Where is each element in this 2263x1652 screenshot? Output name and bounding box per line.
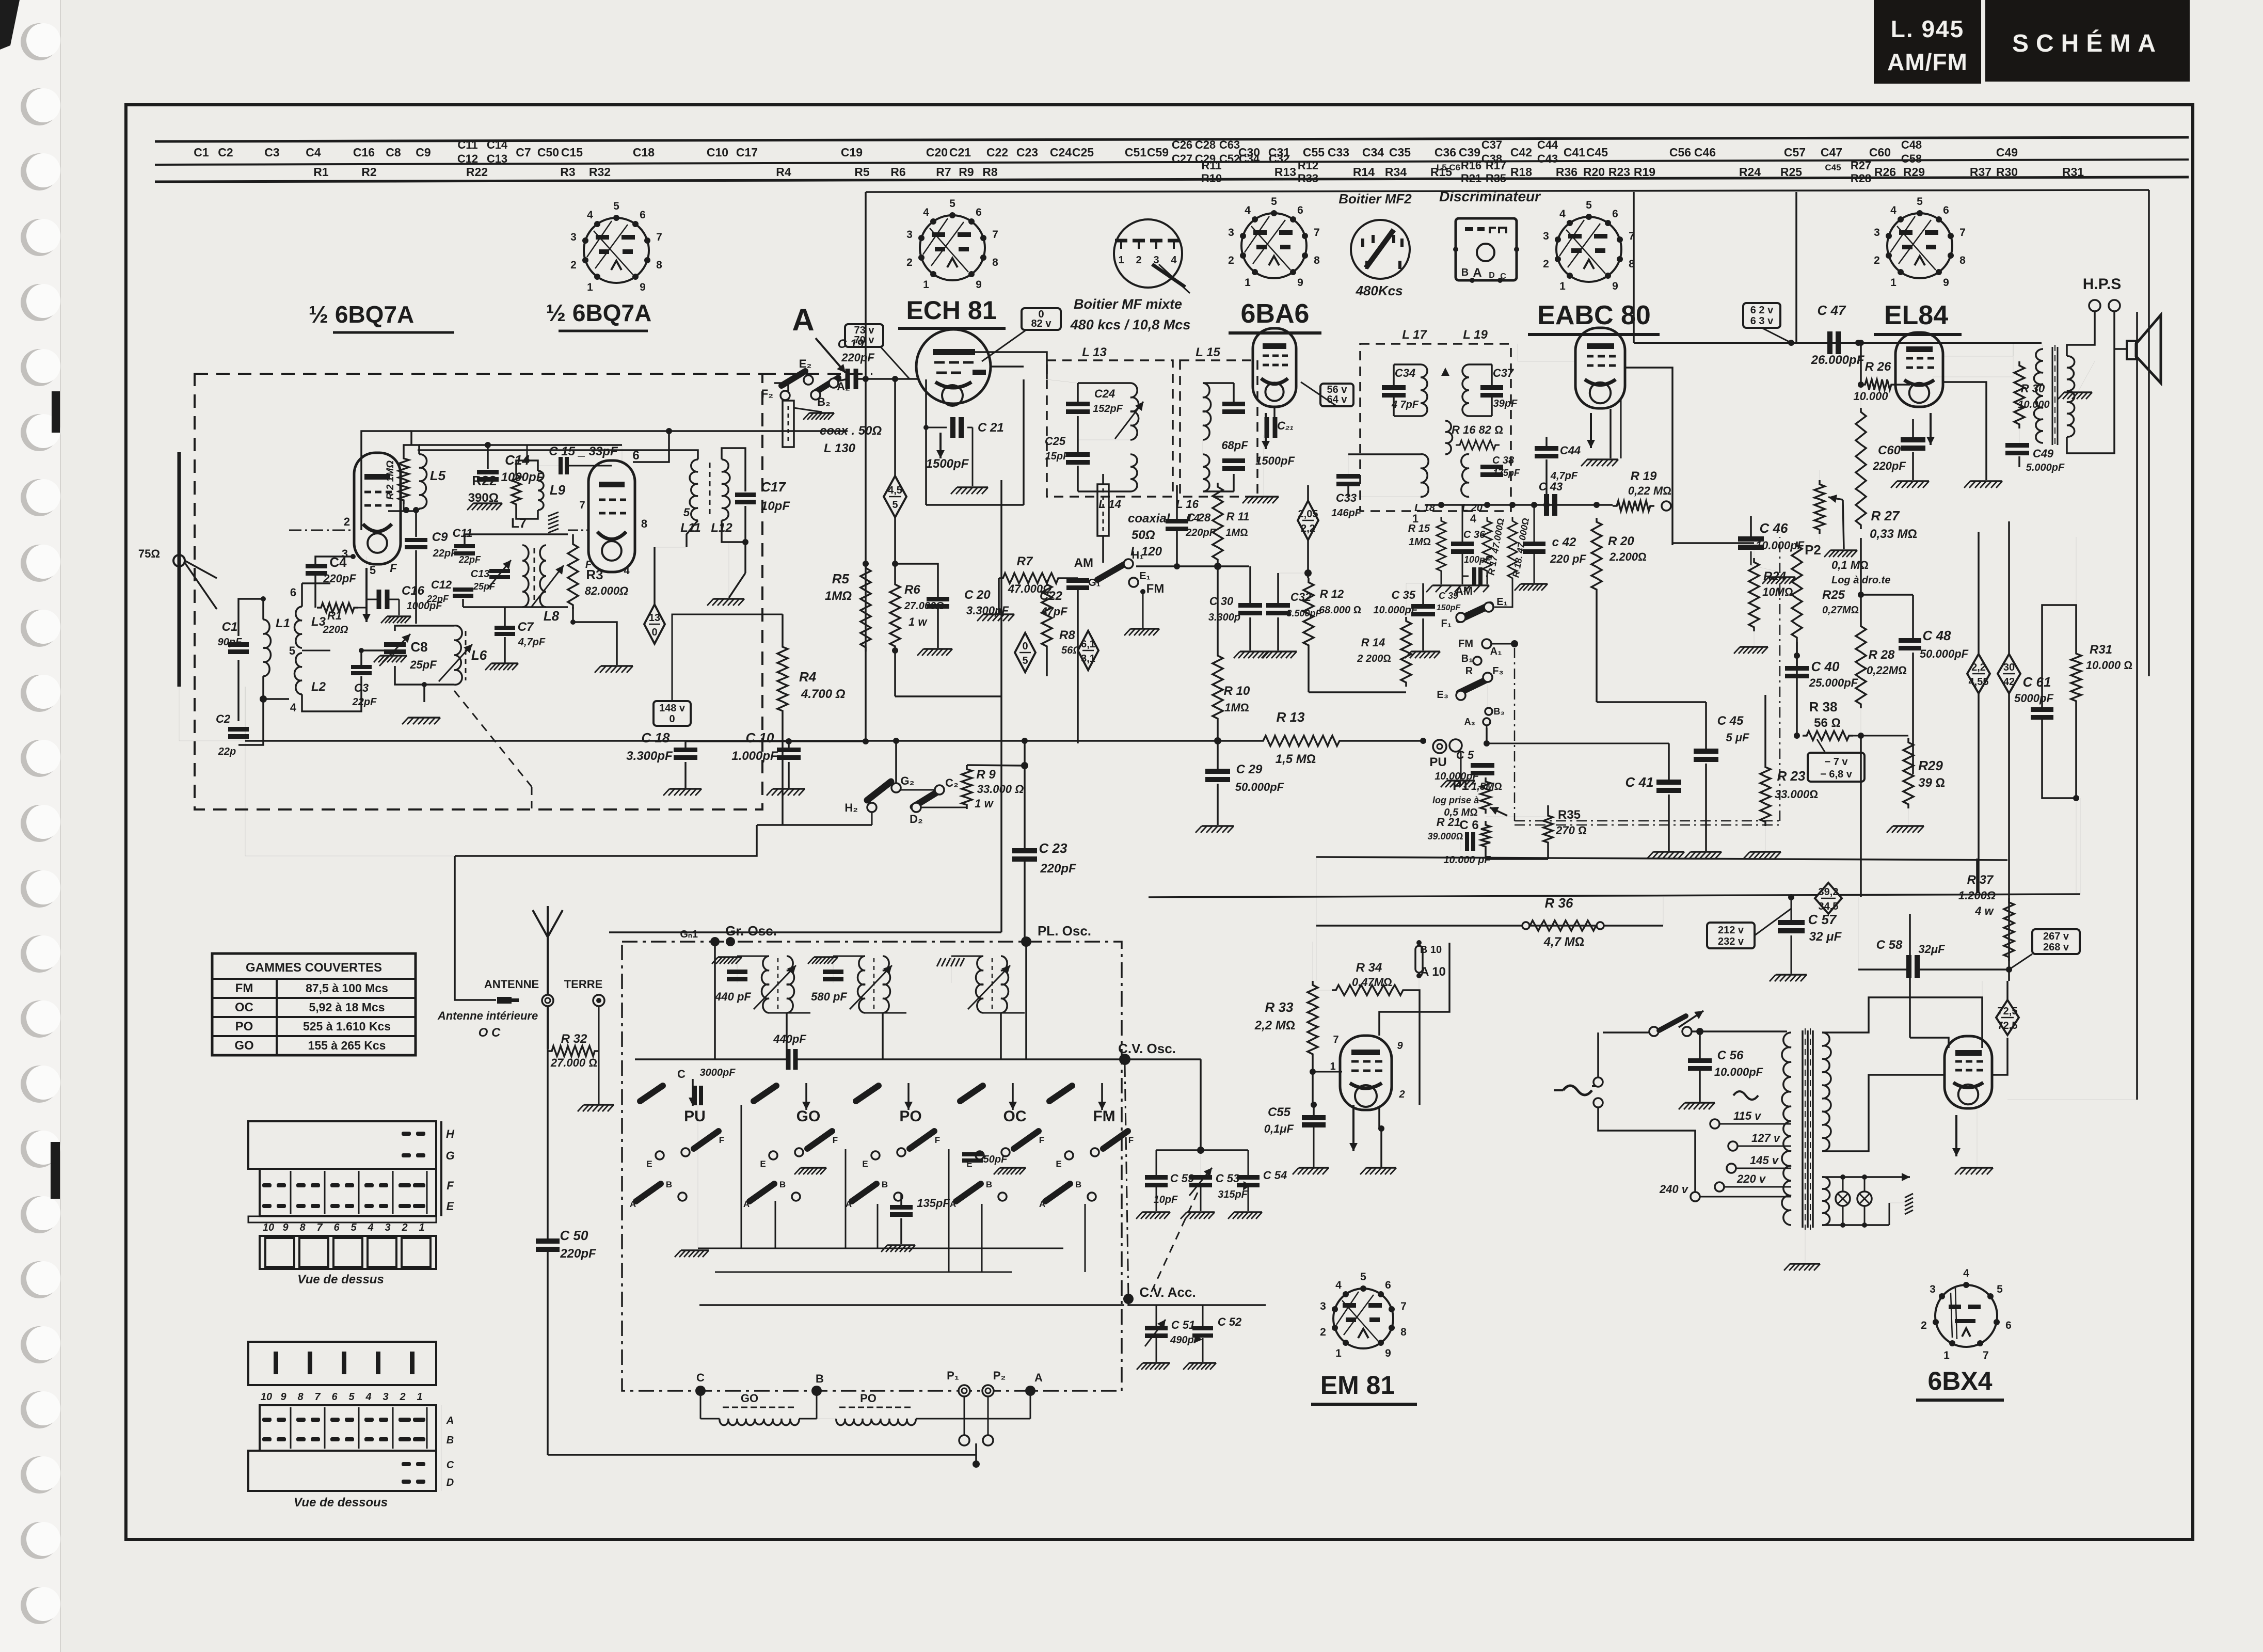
svg-text:1: 1 bbox=[923, 279, 929, 291]
svg-text:7: 7 bbox=[1314, 227, 1320, 239]
svg-text:AM/FM: AM/FM bbox=[1887, 49, 1968, 75]
resistor R18 bbox=[1508, 517, 1517, 582]
svg-text:C60: C60 bbox=[1869, 146, 1891, 159]
wire H2 stem bbox=[871, 812, 873, 825]
FM box top extension bbox=[762, 373, 872, 375]
svg-text:0: 0 bbox=[651, 627, 657, 638]
svg-text:R17: R17 bbox=[1486, 159, 1506, 172]
wire bbox=[1796, 642, 1798, 668]
svg-text:E: E bbox=[862, 1159, 868, 1169]
svg-text:A: A bbox=[1034, 1371, 1043, 1384]
svg-text:6 2 v: 6 2 v bbox=[1750, 305, 1774, 316]
inductor L12 bbox=[722, 459, 730, 520]
wire bbox=[245, 687, 246, 741]
resistor R30 bbox=[2014, 361, 2025, 428]
svg-text:C24: C24 bbox=[1094, 387, 1115, 400]
MF2 boitier socket bbox=[1351, 220, 1410, 279]
inductor L15 coil bbox=[1203, 383, 1211, 440]
svg-text:R14: R14 bbox=[1353, 165, 1375, 179]
diamond 6,1 3,1 bbox=[1078, 631, 1098, 670]
resistor R12 bbox=[1303, 578, 1314, 649]
wire bbox=[1692, 1030, 1700, 1032]
svg-text:64 v: 64 v bbox=[1327, 394, 1348, 405]
svg-text:C34: C34 bbox=[1395, 367, 1415, 379]
switch R F3 bbox=[1459, 678, 1489, 693]
wire bbox=[1982, 981, 1983, 1044]
svg-text:C 48: C 48 bbox=[1923, 628, 1951, 643]
svg-text:½ 6BQ7A: ½ 6BQ7A bbox=[309, 301, 415, 328]
svg-text:5: 5 bbox=[613, 200, 619, 212]
svg-text:R 16 82 Ω: R 16 82 Ω bbox=[1452, 423, 1503, 436]
svg-text:3: 3 bbox=[1228, 227, 1234, 239]
svg-text:L7: L7 bbox=[511, 515, 527, 531]
svg-text:A: A bbox=[950, 1199, 956, 1209]
svg-text:A: A bbox=[630, 1199, 636, 1209]
svg-text:5: 5 bbox=[949, 198, 955, 210]
svg-text:R 34: R 34 bbox=[1356, 961, 1382, 975]
svg-text:C 58: C 58 bbox=[1876, 938, 1903, 952]
svg-text:R 12: R 12 bbox=[1320, 587, 1344, 600]
core dashes L6 bbox=[465, 631, 467, 680]
svg-text:1 w: 1 w bbox=[975, 797, 994, 810]
svg-text:1MΩ: 1MΩ bbox=[1224, 701, 1249, 714]
svg-text:B 10: B 10 bbox=[1420, 944, 1442, 956]
svg-text:C12: C12 bbox=[431, 578, 452, 591]
wire bbox=[1378, 1108, 1380, 1129]
wire bbox=[245, 741, 455, 856]
svg-text:72,5: 72,5 bbox=[1998, 1020, 2018, 1031]
capacitor C6 bbox=[1467, 832, 1473, 851]
svg-text:26.000pF: 26.000pF bbox=[1811, 353, 1865, 367]
svg-text:R6: R6 bbox=[904, 583, 920, 597]
svg-text:R25: R25 bbox=[1822, 588, 1845, 602]
svg-text:C 57: C 57 bbox=[1808, 912, 1837, 927]
FM dipole antenna bbox=[178, 452, 181, 687]
capacitor C47 bbox=[1830, 331, 1838, 354]
svg-text:H₂: H₂ bbox=[844, 801, 858, 814]
wire rect right bbox=[1993, 1038, 2007, 1075]
arrow cathode EL84 bbox=[1926, 413, 1935, 445]
svg-text:F₃: F₃ bbox=[1492, 665, 1503, 677]
svg-text:C60: C60 bbox=[1878, 443, 1901, 457]
wire bbox=[1316, 857, 1317, 926]
svg-text:C 40: C 40 bbox=[1811, 659, 1840, 674]
diamond 72,5 bbox=[1996, 1000, 2019, 1035]
svg-text:C14: C14 bbox=[487, 138, 508, 151]
svg-text:L5: L5 bbox=[430, 468, 446, 483]
wire bbox=[2019, 428, 2020, 445]
wire bbox=[1912, 595, 1914, 640]
svg-text:PU: PU bbox=[1429, 755, 1446, 769]
ground bbox=[402, 718, 440, 724]
coax L120 bbox=[1097, 474, 1109, 536]
svg-text:4: 4 bbox=[290, 701, 297, 714]
svg-text:A: A bbox=[743, 1199, 750, 1209]
hatch core bbox=[548, 512, 559, 533]
svg-text:68pF: 68pF bbox=[1221, 439, 1248, 452]
svg-text:F: F bbox=[719, 1135, 724, 1145]
svg-text:8: 8 bbox=[641, 517, 647, 530]
svg-text:C: C bbox=[696, 1371, 705, 1384]
resistor R11 bbox=[1213, 483, 1223, 564]
resistor R22 bbox=[512, 471, 521, 509]
gang dashdot link bbox=[1125, 1065, 1128, 1298]
svg-text:C10: C10 bbox=[707, 146, 728, 159]
wire bbox=[1249, 617, 1251, 650]
wire HT to rect bbox=[1822, 997, 1982, 1048]
svg-text:A: A bbox=[1473, 266, 1481, 280]
ground bbox=[381, 616, 411, 623]
svg-text:R 23: R 23 bbox=[1777, 768, 1806, 784]
svg-text:6: 6 bbox=[1385, 1279, 1391, 1291]
svg-text:B: B bbox=[1461, 267, 1469, 278]
svg-text:C 20: C 20 bbox=[964, 588, 991, 602]
svg-text:2 200Ω: 2 200Ω bbox=[1357, 653, 1391, 664]
svg-text:1500pF: 1500pF bbox=[926, 457, 969, 471]
svg-text:27.000 Ω: 27.000 Ω bbox=[550, 1056, 597, 1069]
ground bbox=[917, 649, 952, 656]
svg-text:C 30: C 30 bbox=[1209, 595, 1234, 608]
svg-text:Boitier MF mixte: Boitier MF mixte bbox=[1074, 296, 1182, 312]
svg-text:2,2 MΩ: 2,2 MΩ bbox=[1254, 1019, 1295, 1032]
header line top bbox=[155, 137, 2189, 141]
terminal P1 bbox=[959, 1385, 970, 1396]
svg-text:145 v: 145 v bbox=[1750, 1154, 1779, 1167]
resistor R17 bbox=[1483, 517, 1492, 575]
svg-text:L8: L8 bbox=[544, 608, 560, 624]
ground bbox=[1581, 459, 1618, 466]
wire bbox=[2042, 343, 2043, 349]
wire B+ drop bbox=[1976, 859, 1978, 893]
wire bbox=[722, 448, 745, 491]
svg-text:E₁: E₁ bbox=[1496, 596, 1508, 608]
wire bus down right bbox=[1795, 192, 1797, 343]
svg-text:R1: R1 bbox=[327, 609, 342, 622]
svg-text:R9: R9 bbox=[959, 165, 974, 179]
capacitor C39 bbox=[1474, 567, 1480, 585]
arrow A bbox=[816, 338, 846, 373]
svg-text:135pF: 135pF bbox=[917, 1197, 950, 1210]
svg-text:220Ω: 220Ω bbox=[323, 624, 348, 636]
mains contact2 bbox=[1593, 1098, 1603, 1107]
wire bbox=[1977, 1110, 1978, 1167]
wire C19 up bus bbox=[865, 192, 867, 379]
wire bbox=[817, 1418, 836, 1419]
svg-text:EL84: EL84 bbox=[1884, 300, 1948, 330]
wire bbox=[1596, 594, 1598, 702]
switch F1 E1b bbox=[1459, 605, 1490, 619]
svg-text:R30: R30 bbox=[1996, 165, 2018, 179]
svg-text:H: H bbox=[446, 1127, 455, 1140]
wire frame left drop bbox=[245, 687, 246, 741]
ground bbox=[1887, 826, 1924, 833]
svg-text:C43: C43 bbox=[1537, 152, 1558, 165]
wire bbox=[1217, 564, 1219, 652]
wire bbox=[900, 1194, 902, 1207]
svg-text:7: 7 bbox=[656, 231, 662, 243]
PU jack bbox=[1433, 740, 1446, 753]
svg-text:10MΩ: 10MΩ bbox=[1762, 585, 1793, 598]
svg-text:C7: C7 bbox=[516, 146, 531, 159]
terminal A bbox=[1025, 1386, 1035, 1396]
svg-text:F₂: F₂ bbox=[761, 387, 773, 400]
capacitor C10 bbox=[777, 748, 801, 760]
svg-text:3: 3 bbox=[570, 231, 577, 243]
diamond 0 5 bbox=[1015, 633, 1035, 672]
wire bbox=[1077, 589, 1079, 743]
tube EL84 bbox=[1895, 332, 1943, 407]
svg-text:32 μF: 32 μF bbox=[1809, 930, 1842, 944]
svg-text:R8: R8 bbox=[982, 165, 998, 179]
svg-text:GO: GO bbox=[796, 1108, 821, 1125]
svg-text:C18: C18 bbox=[633, 146, 655, 159]
svg-text:G: G bbox=[445, 1149, 454, 1162]
inductor L11 bbox=[690, 459, 698, 520]
svg-text:4: 4 bbox=[1470, 512, 1477, 525]
svg-text:5: 5 bbox=[1022, 655, 1028, 666]
power transformer primary bbox=[1782, 1032, 1791, 1225]
svg-text:3.300pF: 3.300pF bbox=[626, 749, 673, 763]
svg-text:E: E bbox=[1056, 1159, 1061, 1169]
svg-text:4: 4 bbox=[367, 1222, 373, 1233]
svg-text:R 19: R 19 bbox=[1631, 469, 1657, 483]
svg-text:270 Ω: 270 Ω bbox=[1555, 824, 1587, 837]
antenna mast bbox=[547, 934, 549, 1049]
capacitor C33 bbox=[1336, 474, 1360, 486]
svg-text:ECH 81: ECH 81 bbox=[906, 296, 996, 325]
svg-text:R 13: R 13 bbox=[1277, 709, 1305, 725]
wire bbox=[1176, 485, 1178, 521]
resistor R4 bbox=[777, 643, 788, 715]
arrow cathode 6BA6 bbox=[1262, 413, 1270, 449]
tube socket 6BX4 bbox=[1921, 1267, 2012, 1361]
svg-text:440 pF: 440 pF bbox=[714, 990, 751, 1003]
svg-text:R26: R26 bbox=[1874, 165, 1896, 179]
svg-text:C36: C36 bbox=[1435, 146, 1456, 159]
label FM A1 bbox=[1482, 639, 1491, 648]
svg-text:220pF: 220pF bbox=[841, 351, 874, 364]
svg-text:½ 6BQ7A: ½ 6BQ7A bbox=[546, 299, 652, 326]
inductor L19 coil bbox=[1462, 364, 1469, 416]
svg-text:F: F bbox=[1128, 1135, 1134, 1145]
wire bbox=[1545, 437, 1548, 448]
svg-text:L 19: L 19 bbox=[1463, 328, 1488, 342]
svg-text:C13: C13 bbox=[471, 568, 490, 580]
wire dipole to L1 bbox=[185, 561, 217, 578]
ground bbox=[803, 413, 834, 420]
wire bbox=[1077, 412, 1078, 452]
wire bbox=[1422, 583, 1424, 606]
svg-text:R23: R23 bbox=[1608, 165, 1630, 179]
svg-text:G₁: G₁ bbox=[1088, 577, 1101, 589]
svg-text:22pF: 22pF bbox=[433, 548, 457, 559]
svg-text:1,5 MΩ: 1,5 MΩ bbox=[1276, 752, 1316, 766]
svg-text:9: 9 bbox=[1297, 277, 1303, 289]
svg-text:C57: C57 bbox=[1784, 146, 1806, 159]
label 1/2 6BQ7A (second) bbox=[546, 299, 652, 331]
svg-text:R15: R15 bbox=[1430, 165, 1452, 179]
svg-text:3,1: 3,1 bbox=[1081, 653, 1095, 664]
svg-text:115 v: 115 v bbox=[1733, 1109, 1762, 1122]
svg-text:C1: C1 bbox=[222, 620, 238, 634]
ground bbox=[1679, 1103, 1715, 1109]
capacitor C34 bbox=[1382, 385, 1406, 398]
svg-text:H₁: H₁ bbox=[1132, 550, 1144, 561]
wire bbox=[487, 445, 489, 469]
dial coil GO hatch bbox=[723, 1407, 794, 1408]
svg-text:C34: C34 bbox=[1239, 152, 1260, 165]
svg-text:2: 2 bbox=[1398, 1089, 1405, 1100]
svg-text:34,5: 34,5 bbox=[1819, 901, 1839, 912]
svg-text:C17: C17 bbox=[761, 479, 786, 495]
voltage box 56v 64v bbox=[1320, 384, 1353, 406]
wire EM81 drop bbox=[1312, 942, 1313, 981]
svg-text:C22: C22 bbox=[986, 146, 1008, 159]
svg-text:F: F bbox=[833, 1135, 838, 1145]
svg-text:440pF: 440pF bbox=[773, 1032, 806, 1045]
svg-text:C 43: C 43 bbox=[1539, 480, 1563, 493]
wire grid dashdot2 bbox=[568, 530, 588, 531]
capacitor C52 trim bbox=[1192, 1326, 1213, 1338]
svg-text:90pF: 90pF bbox=[218, 637, 242, 648]
capacitor C58 bbox=[1909, 955, 1917, 978]
svg-text:9: 9 bbox=[1397, 1040, 1403, 1052]
svg-text:C 54: C 54 bbox=[1263, 1169, 1287, 1182]
wire vert 1940 bbox=[1000, 480, 1002, 932]
ground bbox=[485, 663, 518, 670]
svg-text:C33: C33 bbox=[1328, 146, 1349, 159]
svg-text:R 14: R 14 bbox=[1361, 636, 1385, 649]
arrow rect cathode bbox=[1952, 1115, 1961, 1156]
svg-text:C9: C9 bbox=[432, 530, 448, 544]
svg-text:1MΩ: 1MΩ bbox=[1409, 536, 1431, 548]
svg-text:C19: C19 bbox=[841, 146, 863, 159]
wire bbox=[1668, 743, 1670, 782]
svg-text:C55: C55 bbox=[1303, 146, 1325, 159]
capacitor C20 bbox=[927, 597, 949, 609]
wire bbox=[1672, 542, 1754, 544]
svg-text:220 v: 220 v bbox=[1736, 1172, 1766, 1185]
svg-text:4,5: 4,5 bbox=[888, 485, 902, 496]
capacitor C2 bbox=[228, 727, 249, 739]
tap 127v bbox=[1728, 1141, 1738, 1151]
tube EABC80 bbox=[1575, 328, 1625, 408]
svg-text:2: 2 bbox=[344, 515, 350, 528]
wire bbox=[1301, 382, 1337, 406]
node dots bbox=[260, 695, 267, 703]
wire grid line bbox=[302, 650, 330, 652]
svg-text:C33: C33 bbox=[1336, 491, 1357, 504]
svg-text:L 130: L 130 bbox=[824, 441, 856, 455]
wire bbox=[1750, 516, 1752, 539]
svg-text:50pF: 50pF bbox=[983, 1154, 1008, 1165]
svg-text:4: 4 bbox=[365, 1391, 371, 1403]
svg-text:R 20: R 20 bbox=[1608, 534, 1634, 548]
resistor R23 bbox=[1760, 763, 1771, 826]
svg-text:B: B bbox=[882, 1180, 888, 1189]
wire bbox=[1764, 695, 1766, 763]
capacitor C2x bbox=[1267, 417, 1275, 438]
svg-text:C 35: C 35 bbox=[1392, 589, 1416, 601]
svg-text:L 14: L 14 bbox=[1098, 498, 1121, 511]
svg-text:PU: PU bbox=[684, 1108, 706, 1125]
capacitor C26b bbox=[1222, 402, 1245, 414]
svg-text:6: 6 bbox=[333, 1222, 340, 1233]
svg-text:25pF: 25pF bbox=[473, 581, 496, 592]
svg-text:7: 7 bbox=[1959, 227, 1966, 239]
capacitor C16 bbox=[379, 590, 387, 609]
svg-text:3: 3 bbox=[1874, 227, 1880, 239]
wire bbox=[1700, 1030, 1787, 1032]
triode V1b bbox=[588, 460, 635, 572]
svg-text:10pF: 10pF bbox=[761, 499, 790, 513]
svg-text:R 37: R 37 bbox=[1967, 873, 1994, 887]
wire bbox=[548, 1454, 976, 1456]
svg-text:1: 1 bbox=[1245, 277, 1251, 289]
capacitor C32 bbox=[1266, 603, 1290, 615]
capacitor C59 bbox=[1145, 1175, 1168, 1187]
tube socket EM81 bbox=[1320, 1271, 1407, 1359]
svg-text:315pF: 315pF bbox=[1218, 1189, 1248, 1200]
svg-text:GO: GO bbox=[741, 1392, 758, 1405]
svg-text:C 51: C 51 bbox=[1171, 1319, 1195, 1331]
wire bbox=[1316, 926, 1317, 981]
capacitor C19 bbox=[848, 369, 856, 389]
capacitor C54 bbox=[1237, 1175, 1260, 1187]
arrow L8 bbox=[532, 565, 564, 607]
svg-text:5: 5 bbox=[1271, 196, 1277, 208]
svg-text:146pF: 146pF bbox=[1331, 507, 1362, 519]
wire bbox=[1313, 1105, 1315, 1117]
ground bbox=[1955, 1168, 1993, 1174]
wire bbox=[547, 1251, 549, 1455]
svg-text:8: 8 bbox=[1400, 1326, 1407, 1338]
wire bbox=[998, 578, 1000, 613]
ground bbox=[1293, 1168, 1329, 1174]
svg-text:R34: R34 bbox=[1385, 165, 1407, 179]
bus B+ mid bbox=[757, 824, 872, 826]
IF2 dashed box bbox=[1360, 344, 1511, 511]
svg-text:4: 4 bbox=[1559, 208, 1566, 220]
wire bbox=[1249, 566, 1251, 605]
wire EM top bbox=[1379, 943, 1449, 1036]
capacitor C7 bbox=[495, 626, 515, 636]
wire bbox=[1203, 490, 1234, 493]
svg-text:70 v: 70 v bbox=[854, 335, 875, 346]
title block SCHEMA bbox=[1985, 0, 2190, 82]
svg-text:22p: 22p bbox=[218, 746, 236, 757]
wire bbox=[1156, 1305, 1157, 1328]
wire bbox=[1024, 741, 1026, 851]
svg-text:R 2 1MΩ: R 2 1MΩ bbox=[385, 460, 396, 500]
svg-text:C41: C41 bbox=[1564, 146, 1585, 159]
svg-text:F: F bbox=[390, 562, 397, 575]
svg-text:R 30: R 30 bbox=[2021, 382, 2045, 395]
svg-text:6: 6 bbox=[1297, 204, 1303, 216]
wire bbox=[722, 520, 745, 542]
svg-text:C59: C59 bbox=[1147, 146, 1169, 159]
wire bbox=[1755, 909, 1791, 935]
svg-text:C7: C7 bbox=[518, 620, 534, 634]
node Pl.Osc bbox=[1021, 936, 1031, 947]
wire B+ node bbox=[1788, 340, 1794, 346]
svg-text:A: A bbox=[846, 1199, 852, 1209]
wire bbox=[1462, 505, 1463, 544]
ground bbox=[994, 1168, 1026, 1174]
svg-text:8: 8 bbox=[1314, 255, 1320, 266]
wire bbox=[1663, 897, 1664, 926]
terminal bbox=[1662, 501, 1671, 511]
